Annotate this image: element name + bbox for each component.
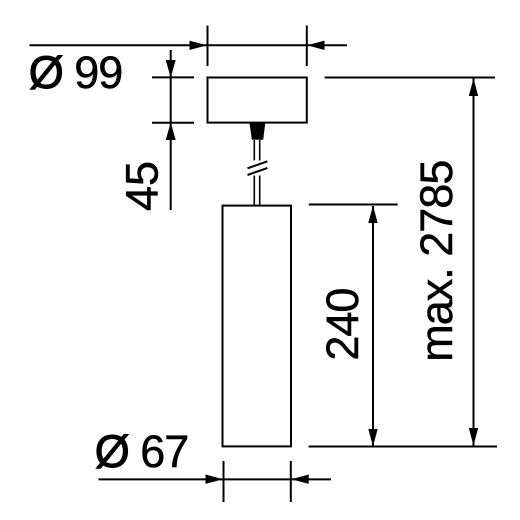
dimension line Ø67 (bottom horizontal) xyxy=(99,478,332,480)
cable break slashes xyxy=(248,161,268,168)
cable lower segment xyxy=(253,176,255,206)
extension tick Ø99 right xyxy=(306,26,308,67)
dimension line 240 (vertical) xyxy=(372,206,374,446)
extension line bottom (shared 240 / max 2785) xyxy=(309,446,497,448)
extension line 240 top xyxy=(309,204,398,206)
extension line 45 top xyxy=(152,76,194,78)
dimension line Ø99 (top horizontal) xyxy=(30,44,348,46)
extension tick Ø67 right xyxy=(290,461,292,502)
svg-text:Ø 67: Ø 67 xyxy=(95,426,189,477)
dimension line 45 (vertical, arrows outside) xyxy=(170,50,172,210)
arrowhead Ø99 right (pointing left) xyxy=(307,41,325,50)
cable gland (black trapezoid) xyxy=(250,124,266,140)
arrowhead Ø67 left (pointing right) xyxy=(206,475,224,484)
dimension line max2785 (vertical) xyxy=(473,79,475,446)
svg-text:45: 45 xyxy=(117,161,168,211)
cable upper segment xyxy=(253,140,255,160)
arrowhead Ø99 left (pointing right) xyxy=(190,41,208,50)
extension tick Ø99 left xyxy=(207,26,209,67)
lamp body (cylinder) xyxy=(223,206,292,447)
svg-text:240: 240 xyxy=(317,289,368,361)
extension line max2785 top xyxy=(325,77,495,79)
canopy (ceiling mount) xyxy=(208,78,307,123)
extension line 45 bottom xyxy=(152,122,194,124)
extension tick Ø67 left xyxy=(223,461,225,502)
svg-text:max. 2785: max. 2785 xyxy=(411,161,462,362)
svg-text:Ø 99: Ø 99 xyxy=(29,47,123,98)
arrowhead Ø67 right (pointing left) xyxy=(291,475,309,484)
